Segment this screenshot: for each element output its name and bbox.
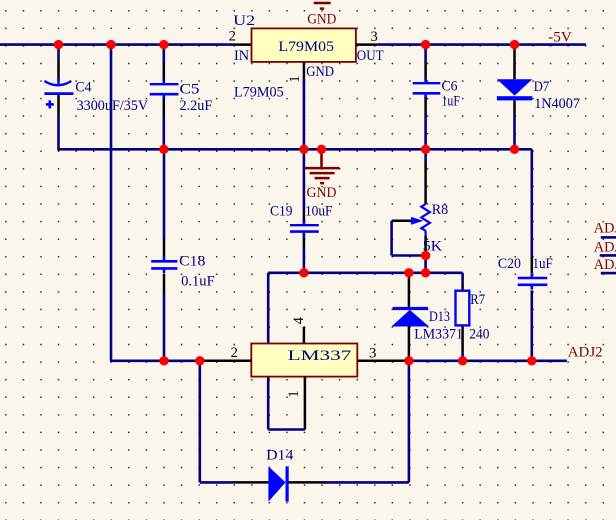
capacitor C6: [413, 79, 460, 110]
svg-text:3: 3: [371, 29, 378, 45]
svg-text:LM3371: LM3371: [414, 327, 463, 343]
svg-text:D13: D13: [429, 309, 450, 325]
svg-text:-5V: -5V: [548, 30, 572, 46]
junction middle row D13: [404, 268, 413, 277]
svg-text:1uF: 1uF: [442, 94, 460, 110]
svg-text:C20: C20: [498, 256, 521, 272]
power GND symbol top (flipped): [307, 3, 336, 28]
wire U2 ground column with C19: [303, 62, 306, 273]
wire C4 column: [57, 45, 60, 150]
svg-text:4: 4: [291, 316, 307, 324]
svg-text:2: 2: [229, 29, 236, 45]
junction top rail D7: [510, 40, 519, 49]
LM337 pin 1 (rotated number): [286, 377, 305, 430]
wire left long vertical: [110, 45, 113, 361]
wire D14 bottom loop: [200, 361, 409, 483]
wire ADJ2 row right of LM337: [409, 359, 567, 362]
wire C5 column: [163, 45, 166, 150]
svg-text:240: 240: [469, 327, 489, 343]
svg-text:R8: R8: [432, 202, 448, 218]
junction mid rail U2 gnd: [299, 145, 308, 154]
wire right vertical with C20: [530, 149, 533, 360]
U2 pin 2: [229, 29, 252, 45]
diode D13: [392, 307, 463, 343]
wire top rail right segment: [378, 43, 586, 46]
capacitor C19: [270, 204, 333, 237]
regulator LM337 box: [251, 344, 357, 377]
junction top rail C4: [54, 40, 63, 49]
wire right edge stub 1: [601, 236, 616, 239]
svg-text:R7: R7: [470, 292, 485, 308]
junction mid rail C6/R8: [421, 145, 430, 154]
junction middle row R8: [421, 268, 430, 277]
svg-text:3300uF/35V: 3300uF/35V: [77, 98, 149, 114]
capacitor C5: [150, 80, 213, 115]
svg-text:ADJ2: ADJ2: [568, 344, 603, 360]
svg-text:3: 3: [369, 345, 376, 361]
wire R7 column: [461, 273, 464, 361]
wire top rail left segment: [0, 43, 233, 46]
wire C6 column: [424, 45, 427, 150]
junction R8 wiper: [421, 251, 430, 260]
op-amp U2 regulator L79M05 box: [252, 28, 356, 62]
U2 pin 3: [356, 29, 378, 45]
svg-text:C19: C19: [270, 204, 293, 220]
svg-text:OUT: OUT: [357, 48, 384, 64]
wire right edge stub 2: [600, 254, 616, 257]
svg-text:U2: U2: [233, 13, 255, 29]
junction mid rail C5/C18: [159, 145, 168, 154]
power GND symbol mid: [305, 149, 340, 201]
wire D13 column: [408, 273, 411, 361]
resistor R8 (pot): [411, 202, 448, 254]
svg-text:1N4007: 1N4007: [534, 96, 580, 112]
junction top rail left vertical: [106, 40, 115, 49]
wire right edge stub 3: [601, 272, 616, 275]
junction mid rail D7: [510, 145, 519, 154]
capacitor C4: [44, 78, 148, 114]
wire pin2 row left of LM337: [110, 359, 200, 362]
svg-text:IN: IN: [234, 48, 250, 64]
svg-text:10uF: 10uF: [305, 204, 333, 220]
svg-text:C5: C5: [180, 82, 200, 98]
wire mid rail: [57, 148, 532, 151]
svg-text:C4: C4: [75, 80, 91, 96]
svg-text:LM337: LM337: [288, 348, 352, 364]
svg-text:2.2uF: 2.2uF: [180, 98, 213, 114]
junction pin3 row R7: [458, 356, 467, 365]
junction mid rail GND symbol: [317, 145, 326, 154]
junction middle row C19: [299, 268, 308, 277]
LM337 pin 2: [200, 345, 252, 361]
wire D7 column: [513, 45, 516, 150]
junction pin3 row D13: [404, 356, 413, 365]
junction pin2 row C18: [159, 356, 168, 365]
wire middle row: [268, 271, 462, 274]
capacitor C18: [151, 254, 215, 290]
junction pin2 row loop: [195, 356, 204, 365]
svg-text:1: 1: [286, 390, 302, 397]
capacitor C20: [498, 256, 553, 289]
diode D7: [497, 79, 580, 112]
wire R8 wiper loop: [392, 221, 426, 256]
wire R8 column: [424, 149, 427, 272]
svg-text:2: 2: [231, 345, 238, 361]
svg-text:1uF: 1uF: [533, 256, 553, 272]
svg-text:GND: GND: [307, 185, 337, 201]
junction pin3 row C20: [527, 356, 536, 365]
svg-text:ADJ: ADJ: [594, 240, 616, 256]
svg-text:D7: D7: [534, 79, 549, 95]
svg-text:C6: C6: [442, 79, 458, 95]
svg-text:0.1uF: 0.1uF: [181, 274, 215, 290]
svg-text:ADJ: ADJ: [594, 257, 616, 273]
svg-text:GND: GND: [306, 64, 334, 80]
wire left loop to pin1: [268, 273, 305, 430]
svg-text:L79M05: L79M05: [278, 39, 334, 55]
diode D14: [266, 448, 293, 502]
junction top rail C5: [159, 40, 168, 49]
svg-text:L79M05: L79M05: [234, 84, 284, 100]
svg-text:GND: GND: [307, 12, 336, 28]
LM337 pin 3: [357, 345, 409, 361]
svg-text:ADJ: ADJ: [594, 220, 616, 236]
svg-text:1: 1: [287, 75, 303, 82]
svg-text:C18: C18: [179, 254, 205, 270]
resistor R7: [456, 291, 490, 343]
junction top rail C6: [421, 40, 430, 49]
svg-text:D14: D14: [266, 448, 293, 464]
wire C18 column: [163, 149, 166, 360]
LM337 pin 4 (rotated number): [291, 316, 307, 343]
